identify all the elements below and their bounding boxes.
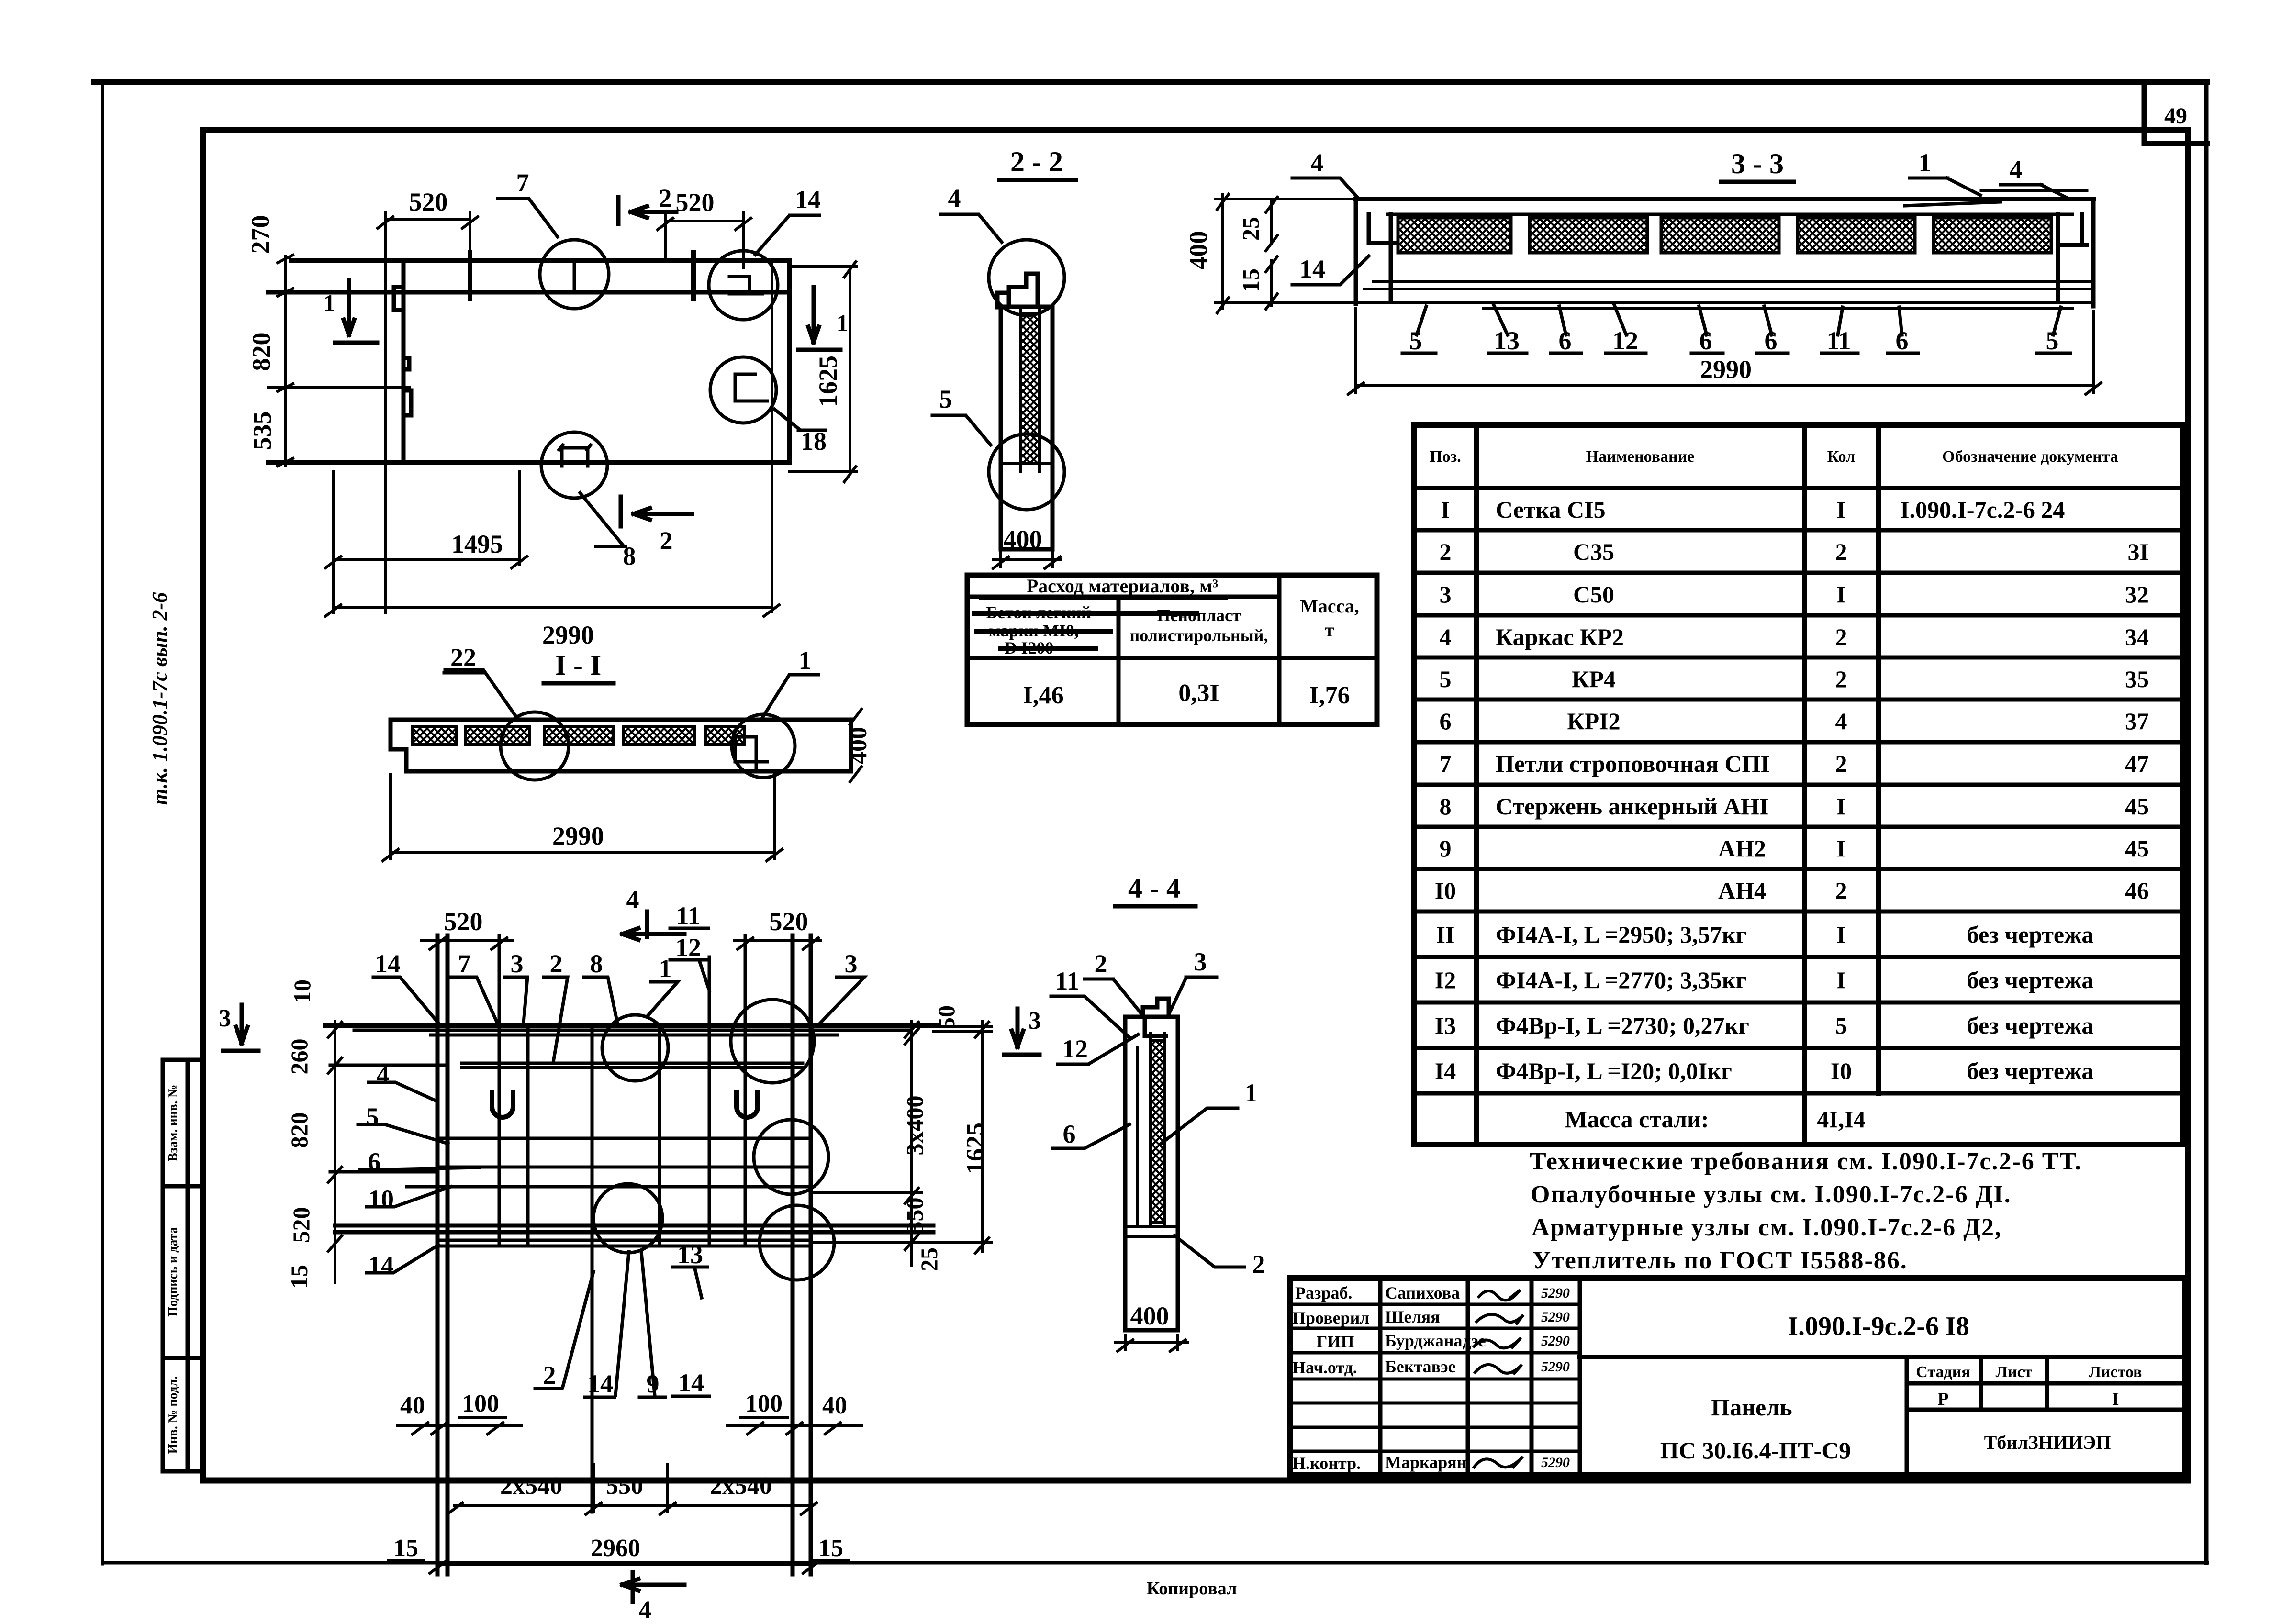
plan view: mesh edge line xyxy=(771,261,773,612)
svg-text:14: 14 xyxy=(368,1251,394,1279)
balloon plan2 c3 xyxy=(754,1120,828,1194)
svg-text:22: 22 xyxy=(450,643,476,672)
dimension 2990 plan1 xyxy=(325,605,779,649)
svg-text:8: 8 xyxy=(1440,793,1452,820)
product code ПС 30.16.4-ПТ-С9 xyxy=(1660,1437,1851,1464)
svg-text:I: I xyxy=(1836,496,1845,523)
label 4 top-right sec3-3 xyxy=(2001,155,2069,199)
svg-text:25: 25 xyxy=(916,1247,942,1271)
section 1-1 strip outline xyxy=(391,720,851,771)
balloon circle 18 xyxy=(710,357,776,423)
header Стадия xyxy=(1916,1363,1970,1381)
svg-text:ПС 30.I6.4-ПТ-С9: ПС 30.I6.4-ПТ-С9 xyxy=(1660,1437,1851,1464)
dimension 400 sec2-2 xyxy=(993,525,1060,568)
parts table row 12 xyxy=(1435,967,2094,993)
parts table row 10 xyxy=(1435,877,2149,904)
rebar plan top band xyxy=(325,1023,938,1028)
svg-text:4: 4 xyxy=(1311,148,1324,177)
svg-text:I: I xyxy=(1836,835,1845,862)
svg-text:Взам. инв. №: Взам. инв. № xyxy=(166,1085,180,1162)
svg-text:Бетон легкий: Бетон легкий xyxy=(986,603,1091,622)
svg-text:2: 2 xyxy=(1835,750,1847,777)
svg-text:45: 45 xyxy=(2125,793,2149,820)
title block row Нач.отд. xyxy=(1292,1357,1570,1377)
section 2-2 balloon top xyxy=(989,240,1064,315)
leader label 5 below sec3-3 xyxy=(1402,306,1436,355)
svg-text:3: 3 xyxy=(219,1005,231,1032)
balloon plan2 c2 xyxy=(731,1000,814,1083)
plan view: panel top edge xyxy=(291,258,790,263)
dimension 2x540 550 2x540 xyxy=(447,1464,816,1514)
plan view: bottom edge xyxy=(268,460,790,465)
section 3-3 second line xyxy=(1388,213,2072,216)
section 2-2 strip outline xyxy=(1001,307,1052,549)
rebar plan left edge bars xyxy=(437,935,447,1574)
svg-text:Наименование: Наименование xyxy=(1586,448,1695,466)
top label 8 with leader xyxy=(584,949,617,1023)
materials value 1,46 xyxy=(1023,682,1063,709)
svg-text:I.090.I-7с.2-6 24: I.090.I-7с.2-6 24 xyxy=(1900,496,2065,523)
svg-text:D I200: D I200 xyxy=(1004,638,1053,657)
svg-text:400: 400 xyxy=(1184,231,1213,270)
label 2 bottom sec4-4 xyxy=(1174,1235,1265,1279)
svg-text:Опалубочные узлы см. I.090.I-7: Опалубочные узлы см. I.090.I-7с.2-6 ДI. xyxy=(1531,1181,2012,1208)
svg-text:10: 10 xyxy=(289,979,315,1003)
materials col3 header xyxy=(1300,595,1359,641)
title block row Разраб. xyxy=(1295,1283,1570,1302)
svg-text:1625: 1625 xyxy=(961,1123,990,1174)
svg-text:I: I xyxy=(1836,581,1845,608)
section 3-3 top right rebar dashes xyxy=(1905,190,2087,206)
svg-text:15: 15 xyxy=(1237,268,1264,292)
svg-text:Каркас КР2: Каркас КР2 xyxy=(1496,623,1624,650)
rotated dim 350 xyxy=(901,1198,928,1234)
section 2-2 inner lines xyxy=(1001,311,1052,471)
section marker 4 bottom xyxy=(622,1572,684,1624)
materials value 0,31 xyxy=(1178,679,1219,707)
leader label 13 below sec3-3 xyxy=(1488,304,1527,355)
balloon circle 7 xyxy=(540,240,609,309)
svg-text:3I: 3I xyxy=(2128,538,2149,565)
svg-text:14: 14 xyxy=(587,1369,613,1398)
section 4-4 strip outline xyxy=(1125,1017,1178,1330)
sheet outer border top xyxy=(94,79,2207,85)
svg-text:100: 100 xyxy=(462,1390,499,1417)
top label 3 with leader xyxy=(504,949,527,1023)
section marker 4 top xyxy=(622,885,684,940)
section 3-3 title xyxy=(1721,148,1794,182)
svg-text:1: 1 xyxy=(659,954,672,983)
svg-text:12: 12 xyxy=(1612,326,1638,355)
svg-text:4 - 4: 4 - 4 xyxy=(1128,872,1181,904)
title block row ГИП xyxy=(1317,1331,1570,1351)
section marker 2 bottom xyxy=(621,497,692,555)
svg-text:т: т xyxy=(1325,619,1334,641)
svg-text:5290: 5290 xyxy=(1541,1455,1570,1470)
label 3 top sec4-4 xyxy=(1169,947,1217,1014)
signature 2 xyxy=(1476,1314,1523,1324)
parts table row 4 xyxy=(1440,623,2149,650)
svg-text:Шеляя: Шеляя xyxy=(1385,1307,1440,1326)
svg-text:6: 6 xyxy=(1063,1120,1076,1148)
balloon plan2 c4 xyxy=(593,1184,662,1253)
handwritten archive note xyxy=(148,592,171,805)
rotated dim 520b xyxy=(288,1207,314,1243)
svg-text:11: 11 xyxy=(1826,326,1851,355)
parts table row 14 xyxy=(1435,1057,2094,1084)
svg-text:ГИП: ГИП xyxy=(1317,1332,1354,1351)
materials table header xyxy=(1027,575,1219,597)
svg-text:6: 6 xyxy=(1699,326,1712,355)
svg-text:I2: I2 xyxy=(1435,967,1456,993)
rebar plan grid row 2 xyxy=(330,1167,811,1172)
extension line left vertical xyxy=(384,213,387,612)
parts table row 8 xyxy=(1440,793,2149,820)
svg-text:I0: I0 xyxy=(1435,877,1456,904)
svg-text:2: 2 xyxy=(659,184,672,212)
rotated dim 820b xyxy=(286,1112,313,1148)
svg-text:I: I xyxy=(1836,921,1845,948)
svg-text:3x400: 3x400 xyxy=(901,1096,928,1156)
title block row lines left part xyxy=(1290,1304,1580,1451)
svg-text:5290: 5290 xyxy=(1541,1309,1570,1325)
product name Панель xyxy=(1711,1394,1792,1421)
section 3-3 insulation block 5 xyxy=(1934,218,2051,253)
svg-text:2: 2 xyxy=(660,526,673,555)
bottom label 14 with leader xyxy=(585,1252,629,1398)
materials table outer xyxy=(967,575,1377,724)
parts table row 3 xyxy=(1440,581,2149,608)
svg-text:4: 4 xyxy=(2010,155,2023,184)
svg-text:2: 2 xyxy=(1835,538,1847,565)
svg-text:АН4: АН4 xyxy=(1718,877,1766,904)
svg-text:9: 9 xyxy=(647,1369,660,1398)
parts table row 11 xyxy=(1436,921,2094,948)
svg-text:Стержень анкерный АНI: Стержень анкерный АНI xyxy=(1496,793,1769,820)
left stamp table xyxy=(163,1060,203,1471)
technical note line 3 xyxy=(1532,1214,2002,1241)
svg-text:Инв. № подл.: Инв. № подл. xyxy=(166,1376,180,1454)
section 2-2 insulation hatch xyxy=(1021,313,1040,464)
svg-text:Пенопласт: Пенопласт xyxy=(1157,606,1241,625)
svg-text:260: 260 xyxy=(286,1039,313,1075)
parts table column lines xyxy=(1476,425,1878,1145)
parts table row 9 xyxy=(1440,835,2149,862)
document number xyxy=(1788,1312,1969,1341)
section 1-1 title xyxy=(544,649,614,683)
svg-text:49: 49 xyxy=(2164,103,2187,129)
svg-text:32: 32 xyxy=(2125,581,2149,608)
svg-text:полистирольный,: полистирольный, xyxy=(1130,626,1268,645)
svg-text:520: 520 xyxy=(676,188,715,217)
label 5 with leader sec2-2 xyxy=(932,385,991,445)
label 8 with leader xyxy=(580,493,636,570)
lifting loop right xyxy=(737,1092,758,1117)
svg-text:I0: I0 xyxy=(1831,1057,1852,1084)
svg-text:без чертежа: без чертежа xyxy=(1967,1012,2094,1039)
top label 7 with leader xyxy=(450,949,498,1024)
bottom label 9 with leader xyxy=(639,1252,665,1398)
section 1-1 insulation block 5 xyxy=(705,726,744,745)
label 2 top sec4-4 xyxy=(1085,949,1142,1014)
svg-text:2x540: 2x540 xyxy=(500,1472,562,1500)
section 1-1 balloon left xyxy=(501,712,569,780)
svg-text:4: 4 xyxy=(626,885,639,914)
svg-text:АН2: АН2 xyxy=(1718,835,1766,862)
label 11 sec4-4 xyxy=(1051,967,1130,1038)
svg-text:Лист: Лист xyxy=(1996,1363,2033,1381)
section 1-1 balloon right xyxy=(732,714,795,778)
svg-text:13: 13 xyxy=(677,1240,703,1269)
svg-text:46: 46 xyxy=(2125,877,2149,904)
svg-text:без чертежа: без чертежа xyxy=(1967,1057,2094,1084)
rebar plan top band lines xyxy=(354,1030,909,1035)
signature 5 xyxy=(1474,1457,1523,1467)
rebar plan bar 2 double line xyxy=(330,1063,803,1068)
svg-text:47: 47 xyxy=(2125,750,2149,777)
label 14 sec3-3 xyxy=(1292,255,1369,285)
section 1-1 insulation block 3 xyxy=(544,726,613,745)
rebar plan inner vertical wires xyxy=(499,935,745,1512)
parts table row 13 xyxy=(1435,1012,2094,1039)
svg-text:Р: Р xyxy=(1937,1389,1948,1409)
svg-text:4: 4 xyxy=(1835,708,1847,734)
materials col1 header xyxy=(986,603,1091,657)
svg-text:7: 7 xyxy=(458,949,471,978)
svg-text:8: 8 xyxy=(623,542,636,570)
dimension text 535 xyxy=(248,412,277,450)
svg-text:5290: 5290 xyxy=(1541,1333,1570,1349)
section 3-3 right end plate xyxy=(2058,199,2093,306)
bottom label 2 with leader xyxy=(535,1272,593,1390)
svg-text:I: I xyxy=(1441,496,1450,523)
value sheets 1 xyxy=(2112,1389,2119,1409)
svg-text:II: II xyxy=(1436,921,1455,948)
svg-text:без чертежа: без чертежа xyxy=(1967,921,2094,948)
section 4-4 inner vertical lines xyxy=(1127,1034,1178,1236)
stamp label Подпись и дата xyxy=(166,1227,180,1317)
bottom label 14c xyxy=(673,1368,709,1397)
section marker 2 top xyxy=(618,184,676,224)
svg-text:марки МI0,: марки МI0, xyxy=(989,621,1079,640)
signature 4 xyxy=(1475,1365,1522,1373)
materials table lines xyxy=(967,575,1377,724)
dimension column right plan2 xyxy=(905,1022,918,1266)
dimension 1625 plan2 xyxy=(961,1022,990,1253)
label 22 with leader xyxy=(444,643,517,718)
svg-text:I - I: I - I xyxy=(555,649,602,681)
svg-text:Н.контр.: Н.контр. xyxy=(1292,1454,1361,1473)
rebar plan grid row 1 xyxy=(437,1137,811,1140)
svg-text:520: 520 xyxy=(409,188,448,216)
parts table row 5 xyxy=(1440,666,2149,692)
svg-text:37: 37 xyxy=(2125,708,2149,734)
title block middle divider xyxy=(1580,1355,2185,1359)
svg-text:5: 5 xyxy=(1440,666,1452,692)
section 4-4 insulation hatch xyxy=(1151,1041,1164,1223)
label 12 sec4-4 xyxy=(1058,1034,1138,1064)
parts table row 7 xyxy=(1440,750,2149,777)
svg-text:4I,I4: 4I,I4 xyxy=(1817,1106,1865,1133)
svg-text:35: 35 xyxy=(2125,666,2149,692)
svg-text:520: 520 xyxy=(444,907,483,936)
svg-text:820: 820 xyxy=(286,1112,313,1148)
parts table row lines xyxy=(1414,488,2182,1093)
title block row Проверил xyxy=(1292,1307,1570,1327)
svg-text:2: 2 xyxy=(1835,877,1847,904)
sheet outer border bottom xyxy=(102,1561,2207,1565)
parts table row 1 xyxy=(1441,496,2065,523)
svg-text:3: 3 xyxy=(1440,581,1452,608)
svg-text:1: 1 xyxy=(837,310,849,336)
svg-text:Кол: Кол xyxy=(1827,448,1856,466)
signature 1 xyxy=(1479,1290,1520,1300)
svg-text:Технические требования см. I.0: Технические требования см. I.090.I-7с.2-… xyxy=(1530,1148,2082,1175)
dimension 520 top-right xyxy=(658,188,751,268)
svg-text:Разраб.: Разраб. xyxy=(1295,1283,1352,1302)
rebar plan bottom band xyxy=(335,1225,933,1232)
page number box xyxy=(2144,84,2207,144)
dimension 2960 xyxy=(430,1535,818,1573)
section 1-1 anchor detail right xyxy=(735,737,767,771)
top label 14 with leader xyxy=(373,949,438,1023)
dimension text 820 xyxy=(247,333,276,371)
svg-text:2990: 2990 xyxy=(542,621,594,649)
section 3-3 insulation block 1 xyxy=(1398,218,1511,253)
svg-text:Расход материалов, м³: Расход материалов, м³ xyxy=(1027,575,1219,597)
svg-text:2: 2 xyxy=(1095,949,1107,978)
svg-text:5: 5 xyxy=(366,1102,379,1131)
section 3-3 left end plate xyxy=(1356,199,1398,304)
leader label 6d below sec3-3 xyxy=(1888,307,1918,355)
label 7 with leader xyxy=(498,168,558,237)
svg-text:12: 12 xyxy=(675,933,701,962)
svg-text:I: I xyxy=(2112,1389,2119,1409)
svg-text:6: 6 xyxy=(1559,326,1572,355)
svg-text:400: 400 xyxy=(1130,1301,1169,1330)
svg-text:I3: I3 xyxy=(1435,1012,1456,1039)
left label 6 with leader xyxy=(360,1147,480,1176)
svg-text:3: 3 xyxy=(1194,947,1207,976)
svg-text:400: 400 xyxy=(845,727,872,764)
svg-text:15: 15 xyxy=(818,1535,843,1562)
svg-text:Ф4Вр-I, L =I20; 0,0Iкг: Ф4Вр-I, L =I20; 0,0Iкг xyxy=(1496,1057,1732,1084)
rotated dim 15b xyxy=(286,1265,313,1289)
parts table outer xyxy=(1414,425,2182,1145)
title block right part dividers xyxy=(1907,1357,2185,1475)
svg-text:без чертежа: без чертежа xyxy=(1967,967,2094,993)
section 3-3 insulation block 3 xyxy=(1661,218,1779,253)
section 2-2 balloon bottom xyxy=(989,434,1064,510)
section 4-4 top anchor detail xyxy=(1143,999,1169,1036)
svg-text:520: 520 xyxy=(770,907,808,936)
section 3-3 insulation block 2 xyxy=(1530,218,1647,253)
section marker 1 left xyxy=(324,280,378,343)
header Листов xyxy=(2089,1363,2142,1381)
svg-text:Подпись и дата: Подпись и дата xyxy=(166,1227,180,1317)
rotated dim 260 xyxy=(286,1039,313,1075)
svg-text:I,46: I,46 xyxy=(1023,682,1063,709)
dimension 520 top-left xyxy=(378,188,478,261)
top label 1 with leader xyxy=(648,954,678,1015)
svg-text:Копировал: Копировал xyxy=(1147,1579,1237,1599)
plan view: anchor bar 14 left xyxy=(468,253,472,299)
section 3-3 insulation block 4 xyxy=(1798,218,1915,253)
svg-text:4: 4 xyxy=(948,184,961,212)
bottom label 13 xyxy=(673,1240,707,1298)
svg-text:Масса,: Масса, xyxy=(1300,595,1359,617)
plan view: flange inner edge (270 line) xyxy=(268,290,790,295)
technical note line 4 xyxy=(1532,1247,1908,1274)
svg-text:350: 350 xyxy=(901,1198,928,1234)
value stage P xyxy=(1937,1389,1948,1409)
svg-text:14: 14 xyxy=(795,185,821,214)
svg-text:Обозначение документа: Обозначение документа xyxy=(1942,448,2118,466)
svg-text:1: 1 xyxy=(799,646,812,675)
svg-text:КРI2: КРI2 xyxy=(1567,708,1620,734)
svg-text:I,76: I,76 xyxy=(1309,682,1350,709)
dimension 25 sec3-3 xyxy=(1237,197,1277,251)
svg-text:Арматурные узлы см. I.090.I-7с: Арматурные узлы см. I.090.I-7с.2-6 Д2, xyxy=(1532,1214,2002,1241)
inner drawing frame xyxy=(203,130,2188,1480)
svg-text:ТбилЗНИИЭП: ТбилЗНИИЭП xyxy=(1984,1432,2111,1453)
sheet outer border left xyxy=(101,82,104,1564)
svg-text:2: 2 xyxy=(550,949,563,978)
svg-text:Сапихова: Сапихова xyxy=(1385,1283,1460,1302)
left label 10 with leader xyxy=(367,1185,451,1213)
svg-text:5: 5 xyxy=(2046,326,2059,355)
title block vertical dividers left part xyxy=(1380,1278,1580,1475)
svg-text:400: 400 xyxy=(1004,525,1042,554)
svg-text:3: 3 xyxy=(1029,1007,1041,1034)
plan view: anchor bar 14 right xyxy=(691,253,696,299)
dimension 2990 sec3-3 xyxy=(1348,309,2101,394)
balloon circle 14 xyxy=(709,251,778,320)
svg-text:2x540: 2x540 xyxy=(710,1472,772,1500)
label 1 sec4-4 xyxy=(1161,1079,1258,1144)
svg-text:1: 1 xyxy=(1919,148,1932,177)
balloon plan2 c5 xyxy=(760,1205,834,1280)
label 15 left xyxy=(389,1535,424,1562)
svg-text:34: 34 xyxy=(2125,623,2149,650)
svg-text:С35: С35 xyxy=(1573,538,1614,565)
section 3-3 lower chord lines xyxy=(1356,281,2093,309)
technical note line 2 xyxy=(1531,1181,2012,1208)
materials header smudge xyxy=(974,597,1225,649)
svg-text:2: 2 xyxy=(1440,538,1452,565)
top label 3 right with leader xyxy=(818,949,864,1025)
svg-text:8: 8 xyxy=(590,949,603,978)
svg-text:3 - 3: 3 - 3 xyxy=(1731,148,1784,179)
left label 4 with leader xyxy=(369,1060,437,1101)
section 4-4 title xyxy=(1115,872,1196,906)
svg-text:т.к. 1.090.1-7с вып. 2-6: т.к. 1.090.1-7с вып. 2-6 xyxy=(148,592,171,805)
svg-text:15: 15 xyxy=(286,1265,313,1289)
leader label 6a below sec3-3 xyxy=(1551,306,1581,355)
svg-text:520: 520 xyxy=(288,1207,314,1243)
rotated dim 25b xyxy=(916,1247,942,1271)
dimension 40-100 left xyxy=(397,1390,522,1434)
dimension text 270 xyxy=(246,215,275,254)
sheet outer border right xyxy=(2204,82,2209,1563)
svg-text:5290: 5290 xyxy=(1541,1285,1570,1301)
svg-text:Панель: Панель xyxy=(1711,1394,1792,1421)
label 18 with leader xyxy=(774,409,827,456)
balloon plan2 c1 xyxy=(602,1015,668,1081)
materials col2 header xyxy=(1130,606,1268,645)
svg-text:2990: 2990 xyxy=(552,822,604,850)
svg-text:14: 14 xyxy=(1299,255,1325,283)
